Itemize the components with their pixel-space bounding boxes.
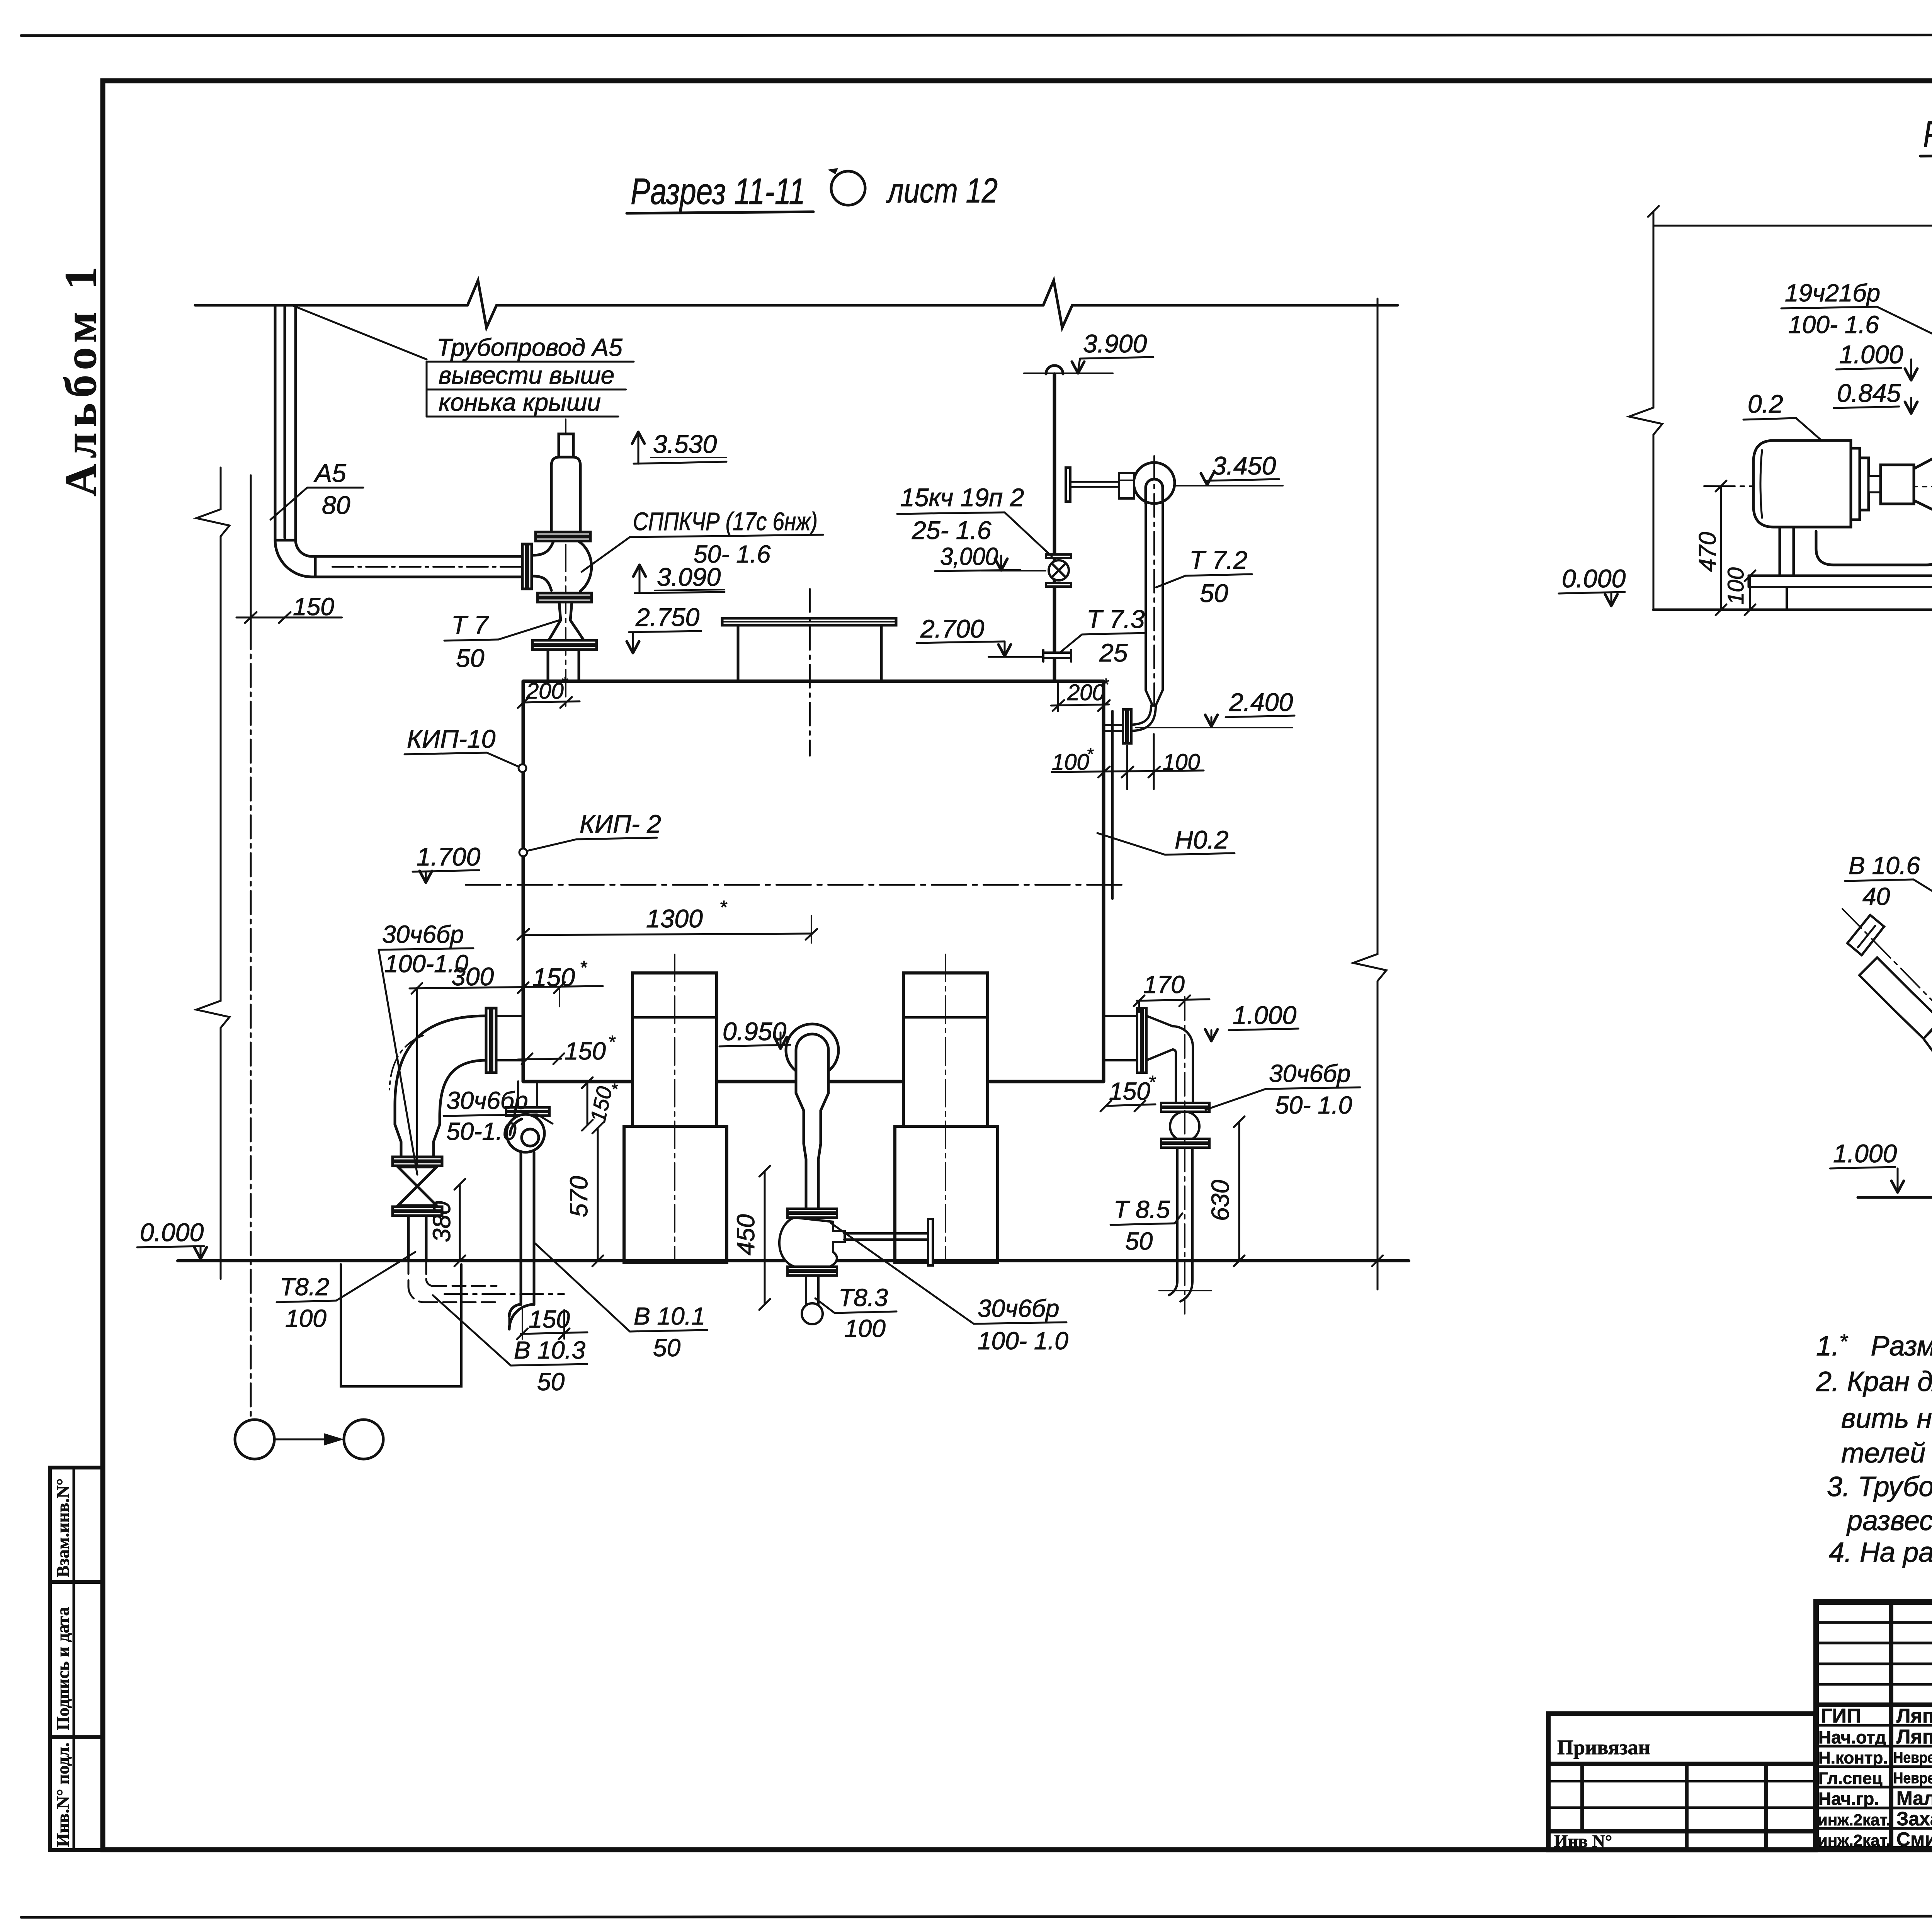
svg-text:Т 7.3: Т 7.3: [1087, 605, 1145, 633]
diagonal valve v13: [1842, 909, 1932, 1112]
label Т8.3/100: [815, 1284, 896, 1342]
pipe Т7.2 drop leg: [1105, 456, 1163, 731]
level mark 0.000: [137, 1218, 207, 1259]
top dim line with break: [1653, 201, 1932, 235]
svg-text:100: 100: [1723, 567, 1748, 605]
label Т8.5/50: [1111, 1196, 1182, 1255]
svg-text:1.* Размеры для справок.: 1.* Размеры для справок.: [1816, 1329, 1932, 1362]
svg-text:развести по месту согласно: развести по месту согласно схеме лист 7.: [1846, 1505, 1932, 1536]
svg-text:*: *: [1148, 1072, 1156, 1092]
ceiling line with breaks: [195, 281, 1398, 328]
label Трубопровод А5: [293, 306, 634, 417]
node circles bottom: [235, 1420, 383, 1459]
svg-text:200: 200: [1067, 680, 1105, 705]
dims 300 and 150* top of elbow: [410, 957, 603, 1165]
svg-text:инж.2кат.: инж.2кат.: [1818, 1811, 1891, 1829]
svg-text:100: 100: [844, 1315, 886, 1342]
left margin boxes: [50, 1468, 103, 1850]
label А5/80: [270, 459, 363, 520]
label Т7.3/25: [1060, 605, 1146, 667]
big elbow 30ч6бр100 suction: [389, 1008, 523, 1157]
svg-text:0.000: 0.000: [140, 1218, 204, 1247]
svg-text:100: 100: [285, 1304, 327, 1332]
svg-text:50: 50: [456, 644, 485, 672]
right extension line with break: [1353, 299, 1386, 1289]
svg-text:ГИП: ГИП: [1821, 1705, 1861, 1727]
label Т7.2/50: [1156, 546, 1252, 607]
svg-text:Малыгина: Малыгина: [1896, 1787, 1932, 1809]
elevation 1.000: [1836, 340, 1917, 380]
flange on tank wall 2.400: [1123, 709, 1131, 743]
dim 630: [1206, 1116, 1245, 1266]
svg-text:0.2: 0.2: [1748, 389, 1783, 418]
label В10.3/50: [433, 1295, 587, 1396]
node КИП-10: [405, 724, 526, 772]
valve Т8.3: [779, 1209, 933, 1324]
svg-text:100- 1.6: 100- 1.6: [1788, 311, 1879, 338]
dim 380: [428, 1179, 465, 1266]
svg-text:1.000: 1.000: [1833, 1139, 1897, 1168]
svg-text:3.530: 3.530: [653, 430, 717, 458]
label 19ч21бр: [1781, 279, 1932, 381]
underground pipe Т8.2 run: [408, 1261, 564, 1302]
svg-text:Ляпусов: Ляпусов: [1896, 1705, 1932, 1727]
dim 150 left: [236, 593, 342, 623]
svg-text:0.845: 0.845: [1837, 379, 1901, 407]
svg-text:40: 40: [1862, 883, 1890, 910]
svg-text:25- 1.6: 25- 1.6: [912, 516, 992, 544]
label В10.6/40: [1845, 852, 1932, 924]
rotation mark circle: [828, 168, 865, 205]
svg-text:1300: 1300: [646, 904, 703, 933]
pump column 1: [624, 954, 727, 1263]
svg-text:2.400: 2.400: [1229, 688, 1293, 716]
album label: [55, 261, 106, 497]
dims 100* 100 below tank right: [1052, 734, 1204, 789]
label В10.1/50: [535, 1243, 707, 1362]
svg-text:30ч6бр: 30ч6бр: [446, 1087, 528, 1114]
margin box labels: [53, 1478, 73, 1847]
svg-text:380: 380: [428, 1201, 456, 1242]
stamp outer box: [1816, 1602, 1932, 1849]
svg-text:Ляпусов: Ляпусов: [1896, 1726, 1932, 1748]
elevation 0.845: [1834, 379, 1917, 413]
gate valve Т8.2: [393, 1157, 442, 1261]
elevation 2.750: [627, 603, 701, 653]
valve 15кч19п2 on Т7.3: [1046, 554, 1071, 587]
dim 470 rotated: [1694, 481, 1726, 615]
axis line to node circle: [250, 475, 252, 1419]
underground pit: [341, 1264, 461, 1386]
svg-text:лист 12: лист 12: [886, 172, 998, 210]
label Н0.2: [1097, 825, 1235, 855]
svg-text:Привязан: Привязан: [1557, 1736, 1650, 1759]
SECTION-12-12: [1559, 114, 1932, 713]
elevation 2.700: [917, 614, 1043, 657]
label 0.2: [1743, 389, 1839, 456]
svg-text:19ч21бр: 19ч21бр: [1785, 279, 1880, 307]
section title Разрез 12-12: [1920, 114, 1932, 156]
signature table columns: [1891, 1602, 1932, 1849]
tank bottom nozzle B10.1: [506, 1082, 549, 1116]
elevation 0.000 s12: [1559, 564, 1626, 606]
svg-text:А5: А5: [313, 459, 346, 487]
label Т7/50: [444, 611, 560, 672]
svg-text:30ч6бр: 30ч6бр: [382, 920, 464, 948]
svg-text:*: *: [580, 957, 587, 978]
svg-text:100-1.0: 100-1.0: [384, 950, 468, 978]
svg-text:В 10.3: В 10.3: [514, 1336, 585, 1364]
svg-text:*: *: [1087, 745, 1094, 764]
svg-text:Гл.спец: Гл.спец: [1818, 1769, 1883, 1788]
svg-text:Захарова: Захарова: [1896, 1808, 1932, 1830]
baseplate and foundation: [1749, 527, 1932, 610]
pump 30ч6бр 50-1.0: [507, 1114, 544, 1329]
elevation 3.530: [632, 430, 726, 464]
dim 150* mid: [518, 1032, 616, 1065]
svg-text:вывести выше: вывести выше: [439, 361, 614, 389]
label 30ч6бр/50-1.0 left: [444, 1087, 553, 1145]
svg-text:Нач.гр.: Нач.гр.: [1818, 1789, 1879, 1809]
svg-text:450: 450: [732, 1214, 760, 1255]
section title Разрез 11-11: [627, 171, 998, 213]
signature table rows: [1816, 1622, 1932, 1828]
svg-text:Инв N°: Инв N°: [1554, 1831, 1612, 1851]
pipe A5 vertical: [275, 305, 296, 540]
svg-text:2.750: 2.750: [635, 603, 699, 631]
dim 170: [1134, 971, 1209, 1012]
svg-text:3.090: 3.090: [657, 563, 721, 591]
svg-text:телей Т8.1 в удобном для об: телей Т8.1 в удобном для обслуживания ме…: [1841, 1438, 1932, 1469]
pipe Н0.2 suction inside tank: [1111, 711, 1114, 899]
dim 150 bottom: [517, 1305, 587, 1339]
TITLE BLOCK: [1548, 1602, 1932, 1893]
svg-text:50: 50: [1200, 579, 1228, 607]
svg-text:80: 80: [322, 491, 350, 519]
svg-text:КИП-10: КИП-10: [407, 724, 496, 753]
safety valve СППКЧР: [532, 419, 597, 707]
svg-text:630: 630: [1206, 1180, 1234, 1221]
elevation 3.090: [633, 563, 724, 593]
svg-text:В 10.1: В 10.1: [634, 1302, 705, 1330]
pump 0.950 with U-pipe: [786, 1024, 838, 1209]
svg-text:Т 7.2: Т 7.2: [1189, 546, 1247, 574]
svg-text:50: 50: [1125, 1227, 1153, 1255]
svg-text:50: 50: [537, 1368, 565, 1396]
floor v13: [1858, 1196, 1932, 1199]
union on Т7.3: [1043, 650, 1071, 662]
left extension line with breaks: [196, 468, 230, 1279]
tank: [523, 681, 1104, 1082]
dim 150* right: [1100, 1072, 1156, 1111]
svg-text:КИП- 2: КИП- 2: [580, 810, 661, 838]
dim 100 rotated: [1723, 567, 1755, 615]
label 30ч6бр/50-1.0 right: [1206, 1060, 1360, 1119]
svg-text:2.700: 2.700: [920, 614, 984, 643]
svg-text:Невретдинова: Невретдинова: [1893, 1749, 1932, 1766]
manhole on tank top: [722, 589, 896, 756]
dim 150 rotated near nozzle: [582, 1077, 627, 1131]
svg-text:0.000: 0.000: [1562, 564, 1626, 593]
svg-text:Подпись и дата: Подпись и дата: [53, 1607, 73, 1730]
Т7.2 handwheel and side pipe: [1066, 468, 1134, 502]
svg-text:Н0.2: Н0.2: [1175, 825, 1228, 854]
svg-text:СППКЧР (17с 6нж): СППКЧР (17с 6нж): [633, 507, 818, 536]
svg-text:Альбом 1: Альбом 1: [55, 261, 106, 497]
svg-text:200: 200: [526, 679, 564, 704]
svg-text:*: *: [608, 1032, 616, 1052]
svg-text:30ч6бр: 30ч6бр: [978, 1294, 1060, 1322]
label Т8.2/100: [277, 1252, 415, 1332]
dim 1300: [517, 897, 817, 943]
dim 0.950: [719, 1017, 790, 1049]
svg-text:вить на трубопроводе возврат: вить на трубопроводе возврата конденсата…: [1841, 1403, 1932, 1434]
label 15кч19п2: [897, 483, 1052, 556]
pump head Т7.2 circle: [1134, 463, 1175, 503]
svg-text:Разрез 11-11: Разрез 11-11: [631, 171, 805, 212]
elevation 3.450: [1175, 451, 1283, 486]
attach table: [1548, 1714, 1815, 1851]
svg-text:50- 1.0: 50- 1.0: [1275, 1091, 1352, 1119]
svg-text:50: 50: [653, 1334, 681, 1362]
svg-text:3. Трубопроводы охлаждения п: 3. Трубопроводы охлаждения подшипников н…: [1827, 1471, 1932, 1502]
svg-text:15кч 19п 2: 15кч 19п 2: [900, 483, 1024, 512]
svg-text:470: 470: [1694, 532, 1721, 572]
svg-text:Инв.N° подл.: Инв.N° подл.: [53, 1743, 73, 1847]
svg-text:2. Кран для отбора проб кон: 2. Кран для отбора проб конденсата марки…: [1816, 1366, 1932, 1397]
svg-text:Т 7: Т 7: [451, 611, 489, 639]
svg-text:1.000: 1.000: [1233, 1001, 1296, 1029]
svg-text:100- 1.0: 100- 1.0: [978, 1327, 1068, 1355]
svg-text:Нач.отд: Нач.отд: [1818, 1727, 1886, 1747]
svg-text:570: 570: [565, 1176, 593, 1217]
elevation 1.000 v13: [1830, 1139, 1904, 1192]
svg-text:*: *: [561, 673, 568, 692]
svg-text:25: 25: [1099, 638, 1128, 667]
svg-text:конька крыши: конька крыши: [439, 388, 601, 416]
pipe Т7.3: [1046, 366, 1063, 681]
svg-text:Т 8.5: Т 8.5: [1114, 1196, 1170, 1223]
svg-text:30ч6бр: 30ч6бр: [1269, 1060, 1351, 1087]
svg-text:170: 170: [1143, 971, 1185, 998]
svg-text:Н.контр.: Н.контр.: [1818, 1748, 1888, 1767]
elevation 3.900: [1024, 329, 1153, 373]
svg-text:Невретдинова: Невретдинова: [1893, 1770, 1932, 1787]
label СППКЧР: [582, 507, 823, 572]
level 1.700: [413, 842, 1126, 885]
svg-text:50-1.0: 50-1.0: [446, 1117, 517, 1145]
flange A5 to valve: [522, 544, 532, 589]
pump column 2: [895, 954, 998, 1263]
svg-text:1.700: 1.700: [417, 842, 480, 871]
SECTION-11-11: [137, 168, 1409, 1459]
elevation 1.000 right: [1205, 1001, 1298, 1041]
NOTES: [1816, 1329, 1932, 1568]
dim 200 right: [1051, 675, 1110, 711]
svg-text:Взам.инв.N°: Взам.инв.N°: [53, 1478, 73, 1577]
dim 570: [565, 1122, 603, 1266]
pump centerline: [1704, 486, 1932, 488]
svg-text:*: *: [719, 897, 727, 918]
svg-text:Т8.2: Т8.2: [280, 1273, 329, 1301]
floor line 0.000: [178, 1259, 1409, 1262]
svg-text:3.900: 3.900: [1083, 329, 1147, 358]
svg-text:150: 150: [293, 593, 334, 621]
elevation 2.400: [1136, 688, 1294, 728]
svg-text:Разрез 12-12: Разрез 12-12: [1923, 114, 1932, 155]
svg-text:1.000: 1.000: [1839, 340, 1903, 369]
svg-text:*: *: [1102, 675, 1109, 694]
svg-text:Трубопровод А5: Трубопровод А5: [437, 333, 622, 361]
motor: [1753, 440, 1932, 527]
svg-text:Т8.3: Т8.3: [838, 1284, 888, 1311]
dim 450: [732, 1166, 770, 1310]
label 30ч6бр/100-1.0 lower: [831, 1223, 1068, 1355]
tank nozzle Т8.5 right: [1104, 997, 1211, 1314]
VIEW-13-13: [1830, 767, 1932, 1364]
svg-text:инж.2кат.: инж.2кат.: [1818, 1831, 1891, 1849]
svg-text:4. На разрезе 11-11 лестница: 4. На разрезе 11-11 лестница условно не …: [1829, 1537, 1932, 1568]
svg-text:3,000: 3,000: [940, 543, 998, 570]
floor line s12: [1653, 609, 1932, 611]
svg-text:3.450: 3.450: [1212, 451, 1276, 480]
svg-text:Смирнова: Смирнова: [1896, 1828, 1932, 1850]
label 30ч6бр/100-1.0 upper left: [379, 920, 473, 1175]
dim 200 left: [518, 673, 580, 708]
signature names: [1818, 1705, 1932, 1850]
elevation 3.000: [935, 543, 1046, 571]
svg-text:В 10.6: В 10.6: [1849, 852, 1920, 879]
node КИП-2: [519, 810, 661, 856]
svg-text:150: 150: [565, 1037, 606, 1065]
pipe A5 elbow and horizontal run: [275, 540, 522, 577]
left dim line with break: [1629, 206, 1662, 610]
